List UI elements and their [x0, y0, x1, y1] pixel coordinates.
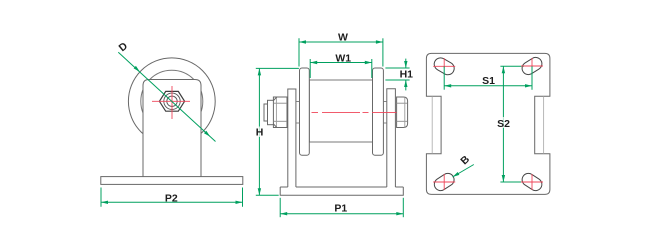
- dimension H extension lines: [256, 67, 299, 69]
- dimension line W: [299, 41, 383, 43]
- svg-text:W1: W1: [335, 52, 351, 64]
- dimension line P2: [101, 201, 243, 203]
- slot hole top-right: [520, 55, 545, 77]
- hub hex nut: [159, 91, 184, 111]
- drum (wheel tread): [309, 80, 372, 142]
- S2 extension line top: [500, 65, 524, 67]
- dimension P2 extension lines: [100, 188, 102, 207]
- S2 extension line bottom: [500, 181, 527, 183]
- wheel outer flange circle: [128, 58, 215, 145]
- slot hole bottom-right: [520, 171, 545, 193]
- hub center mark horizontal: [152, 100, 190, 102]
- slot hole top-left: [432, 56, 457, 77]
- dimension line W1: [310, 62, 372, 64]
- dimension W extension lines: [298, 38, 300, 66]
- dimension line H: [258, 68, 260, 195]
- bracket (side view, covers circles): [143, 80, 201, 178]
- dimension H1 extension lines: [385, 67, 409, 69]
- washer edge lines between flange and leg (right): [383, 101, 386, 103]
- axle centerline (red): [312, 111, 397, 113]
- svg-text:P1: P1: [334, 203, 347, 215]
- label S2: [497, 117, 511, 128]
- label H: [255, 127, 264, 138]
- wheel flange left: [300, 68, 310, 155]
- center mark top-right: [521, 65, 543, 67]
- hidden leg line right: [543, 96, 545, 153]
- yoke leg right: [387, 89, 396, 187]
- svg-text:P2: P2: [165, 192, 178, 204]
- wheel flange right: [373, 68, 384, 155]
- svg-text:S2: S2: [497, 118, 510, 130]
- dimension P1 extension lines: [279, 198, 281, 217]
- slot hole bottom-left: [432, 171, 457, 193]
- washer left: [268, 100, 274, 124]
- svg-text:S1: S1: [482, 75, 495, 87]
- center mark top-left: [433, 65, 455, 67]
- hub outer circle: [164, 93, 180, 109]
- svg-text:H1: H1: [400, 68, 414, 80]
- base plate (front view): [280, 187, 403, 195]
- hex nut right: [397, 97, 408, 128]
- washer edge lines between leg and flange (left): [296, 101, 300, 103]
- dimension line D (diagonal diameter): [118, 52, 215, 141]
- dimension line P1: [280, 213, 403, 215]
- axle tip left: [264, 104, 268, 121]
- center mark bottom-left: [433, 181, 455, 183]
- svg-text:H: H: [256, 127, 264, 139]
- dimension S1 extension lines: [443, 66, 445, 89]
- hex nut left: [273, 97, 287, 128]
- hub inner circle: [167, 96, 177, 106]
- base plate outline with side notches: [426, 53, 550, 194]
- dimension W1 extension lines: [309, 59, 311, 78]
- yoke leg left: [288, 89, 296, 187]
- hidden leg line left: [431, 96, 433, 153]
- dimension line S1: [444, 85, 532, 87]
- base plate (side view): [101, 177, 243, 185]
- center mark bottom-right: [521, 181, 543, 183]
- wheel inner tread circle: [141, 70, 203, 132]
- leader line B: [453, 165, 474, 178]
- dimension line S2: [502, 66, 504, 182]
- dimension H1 arrows: [405, 59, 407, 68]
- svg-text:W: W: [338, 32, 348, 44]
- hub center mark vertical: [171, 86, 173, 119]
